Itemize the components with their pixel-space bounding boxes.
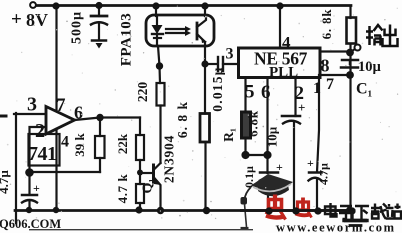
svg-text:220: 220: [135, 82, 150, 103]
svg-text:R₁: R₁: [221, 128, 236, 142]
svg-text:+: +: [276, 160, 283, 174]
svg-text:PLL: PLL: [269, 65, 298, 81]
svg-text:6: 6: [74, 103, 83, 123]
svg-text:6.8k: 6.8k: [246, 110, 261, 137]
svg-text:39 k: 39 k: [72, 132, 87, 156]
svg-text:+: +: [307, 156, 314, 170]
svg-text:8: 8: [321, 56, 330, 76]
svg-text:2N3904: 2N3904: [162, 135, 177, 183]
svg-text:2: 2: [35, 120, 45, 142]
svg-text:1: 1: [313, 80, 321, 97]
svg-text:4.7µ: 4.7µ: [0, 170, 11, 194]
svg-text:4: 4: [61, 134, 69, 151]
svg-text:4.7 k: 4.7 k: [115, 173, 130, 203]
svg-text:3: 3: [27, 94, 37, 116]
svg-text:5: 5: [245, 82, 255, 103]
svg-text:500µ: 500µ: [70, 11, 85, 44]
svg-text:4.7µ: 4.7µ: [317, 163, 331, 185]
svg-text:www.eeworm.com: www.eeworm.com: [276, 221, 396, 234]
svg-text:7: 7: [56, 95, 66, 116]
svg-text:Q606.COM: Q606.COM: [0, 217, 61, 231]
svg-text:7: 7: [326, 76, 334, 93]
svg-text:8V: 8V: [26, 10, 48, 30]
svg-text:FPA103: FPA103: [119, 13, 135, 67]
svg-text:0.015µ: 0.015µ: [210, 66, 225, 111]
svg-text:Q₁: Q₁: [141, 178, 156, 193]
svg-text:+: +: [298, 100, 305, 115]
svg-text:22k: 22k: [115, 133, 130, 154]
svg-text:+: +: [33, 181, 40, 195]
svg-text:6. 8 k: 6. 8 k: [175, 101, 190, 138]
svg-text:+: +: [11, 9, 22, 30]
svg-text:C₁: C₁: [356, 81, 373, 98]
svg-text:6. 8k: 6. 8k: [319, 9, 334, 40]
svg-text:10µ: 10µ: [265, 126, 280, 147]
svg-text:741: 741: [28, 143, 57, 165]
svg-text:3: 3: [226, 46, 234, 63]
svg-text:10µ: 10µ: [358, 59, 382, 75]
